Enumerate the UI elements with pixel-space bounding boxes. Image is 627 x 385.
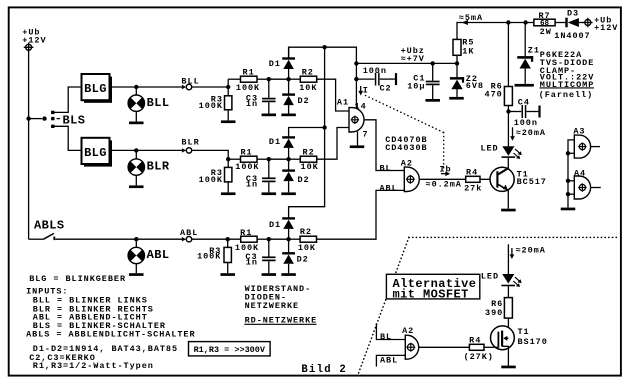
wire +12V rail down left side xyxy=(28,50,30,239)
svg-text:R2: R2 xyxy=(303,147,315,157)
boxed note R1,R3 voltage rating xyxy=(189,342,271,356)
svg-text:BLR: BLR xyxy=(181,137,199,147)
diode D2 (row3) xyxy=(288,239,290,252)
capacitor C4 100n xyxy=(509,111,522,113)
svg-text:C4: C4 xyxy=(518,97,530,107)
ground (C3 row2) xyxy=(262,192,277,195)
wire T1 collector to LED xyxy=(507,158,509,169)
svg-text:R1: R1 xyxy=(240,228,252,238)
svg-text:LED: LED xyxy=(481,271,499,281)
node diodes row3 xyxy=(286,237,290,241)
node C3 row2 xyxy=(267,157,271,161)
resistor R1 100K (row3) xyxy=(241,236,257,242)
svg-text:100n: 100n xyxy=(514,118,538,128)
node A3 lower input xyxy=(566,151,570,155)
capacitor C2 100n decoupling xyxy=(356,78,374,80)
ground (lamp BLL) xyxy=(129,122,144,125)
wire gate to R4 (mosfet) xyxy=(484,346,498,348)
svg-text:BL: BL xyxy=(380,163,392,173)
capacitor C1 10u xyxy=(432,63,434,80)
wire A1 output to A2 BL input xyxy=(365,120,405,171)
node R3 row2 xyxy=(226,157,230,161)
node R3 row1 xyxy=(226,85,230,89)
resistor R3 100K (row2) xyxy=(227,159,229,167)
ground (C3 row3) xyxy=(262,273,277,276)
svg-text:D1: D1 xyxy=(269,59,281,69)
svg-text:LED: LED xyxy=(480,143,498,153)
svg-text:7: 7 xyxy=(363,130,369,140)
ground (D2 row1) xyxy=(281,114,296,117)
wire BLS upper contact to BLG1 xyxy=(55,87,82,112)
wire BLG1 output to lamp BLL node xyxy=(112,86,136,88)
svg-text:R2: R2 xyxy=(302,67,314,77)
supply terminal +Ub +12V (top right) xyxy=(585,20,591,26)
diode D1 (row3) xyxy=(289,128,325,218)
svg-text:≈+7V: ≈+7V xyxy=(401,54,425,64)
wire BLL terminal to R3 node xyxy=(192,79,229,87)
svg-text:D2: D2 xyxy=(297,255,309,265)
ground (R3 row2) xyxy=(221,192,236,195)
node R6 top xyxy=(506,20,510,24)
svg-text:+12V: +12V xyxy=(22,36,46,46)
node Z1 tap xyxy=(523,20,527,24)
node BLR lamp junction xyxy=(134,148,138,152)
svg-text:≈0.2mA: ≈0.2mA xyxy=(426,179,462,189)
node C3 row3 xyxy=(267,237,271,241)
node C2 tap xyxy=(354,77,358,81)
TVS diode Z1 P6KE22A xyxy=(524,23,526,57)
node BLL lamp junction xyxy=(134,85,138,89)
LED indicator (main) xyxy=(502,146,514,156)
svg-text:BL: BL xyxy=(380,332,392,342)
svg-text:100n: 100n xyxy=(363,66,387,76)
ground (C3 row1) xyxy=(262,114,277,117)
ground (C2, vertical bar) xyxy=(395,73,397,85)
svg-text:D1: D1 xyxy=(269,137,281,147)
resistor R7 68 2W xyxy=(534,19,555,26)
wire BL input stub (mosfet) xyxy=(376,323,405,339)
svg-text:I: I xyxy=(363,85,369,95)
current I arrow into A1 pin 14 xyxy=(360,86,362,92)
ground (D2 row3) xyxy=(281,273,296,276)
node diodes row1 xyxy=(286,77,290,81)
svg-text:BLG = BLINKGEBER: BLG = BLINKGEBER xyxy=(29,274,126,284)
ground (Z1) xyxy=(515,84,534,87)
svg-text:100K: 100K xyxy=(199,101,223,111)
resistor R4 27k xyxy=(466,176,480,182)
node R5/Z2 on +Ubz rail xyxy=(455,61,459,65)
wire D1 clamp bus vertical xyxy=(322,125,326,129)
resistor R6 470 xyxy=(507,23,509,87)
wire R2 row2 to A1 lower input xyxy=(317,128,349,160)
svg-text:CD4030B: CD4030B xyxy=(385,143,427,153)
svg-text:100K: 100K xyxy=(236,83,260,93)
wire R6 to T1 drain (mosfet) xyxy=(502,318,508,331)
node A1 supply xyxy=(354,61,358,65)
switch BLS (2-pole blinker switch) xyxy=(29,118,42,120)
wire A3 output xyxy=(590,146,600,148)
svg-text:10K: 10K xyxy=(299,83,317,93)
wire ABL terminal to R3 node xyxy=(192,238,241,240)
ground (lamp ABL) xyxy=(129,273,144,276)
svg-text:R1: R1 xyxy=(243,67,255,77)
transistor T1 BC517 (npn darlington) xyxy=(490,167,514,191)
diode D1 (row1) xyxy=(288,47,290,57)
svg-text:ABL: ABL xyxy=(147,248,170,262)
wire R4 to T1 base xyxy=(480,178,497,180)
wire spare-gate input bus to ground xyxy=(568,140,574,208)
svg-text:6V8: 6V8 xyxy=(466,81,484,91)
wire row2 net to diodes xyxy=(269,158,289,160)
svg-text:D3: D3 xyxy=(567,8,579,18)
svg-text:R4: R4 xyxy=(466,168,478,178)
wire ABL input stub (mosfet) xyxy=(376,355,405,366)
svg-text:ABLS = ABBLENDLICHT-SCHALTER: ABLS = ABBLENDLICHT-SCHALTER xyxy=(26,330,195,340)
capacitor C3 1n (row2) xyxy=(268,159,270,177)
wire LED feed (mosfet) xyxy=(507,244,509,274)
wire T1 emitter to ground xyxy=(507,190,509,209)
svg-text:C2: C2 xyxy=(380,83,392,93)
svg-text:R1: R1 xyxy=(240,147,252,157)
resistor R4 (27K) (mosfet) xyxy=(469,344,484,350)
svg-text:MULTICOMP: MULTICOMP xyxy=(540,80,594,90)
ground (T1 source, mosfet) xyxy=(501,366,516,369)
svg-text:10K: 10K xyxy=(301,162,319,172)
lamp BLR xyxy=(135,150,137,159)
resistor R1 100K (row1) xyxy=(228,78,240,80)
svg-text:1n: 1n xyxy=(246,179,258,189)
svg-text:1n: 1n xyxy=(246,99,258,109)
capacitor C3 1n (row3) xyxy=(268,239,270,256)
svg-text:27k: 27k xyxy=(464,183,482,193)
resistor R3 100K (row3) xyxy=(227,239,229,247)
svg-text:BLG: BLG xyxy=(84,82,107,96)
node C3 row1 xyxy=(267,77,271,81)
svg-text:A2: A2 xyxy=(402,326,414,336)
wire A2 output to R4 xyxy=(419,178,465,180)
ground (D2 row2) xyxy=(281,192,296,195)
blinker generator box BLG1 xyxy=(84,77,112,103)
svg-text:ABL: ABL xyxy=(380,183,398,193)
svg-text:≈20mA: ≈20mA xyxy=(516,245,546,255)
ground (R3 row3) xyxy=(220,273,235,276)
svg-text:BC517: BC517 xyxy=(517,177,547,187)
wire R2 row3 to A2 ABL input xyxy=(317,190,405,239)
svg-text:NETZWERKE: NETZWERKE xyxy=(245,301,299,311)
wire A4 output xyxy=(590,187,601,189)
svg-text:R1,R3=1/2-Watt-Typen: R1,R3=1/2-Watt-Typen xyxy=(33,361,154,371)
svg-text:A1: A1 xyxy=(337,98,349,108)
svg-text:BLS: BLS xyxy=(63,114,86,128)
svg-text:R4: R4 xyxy=(469,335,481,345)
lamp ABL xyxy=(135,239,137,248)
wire BLG2 output to lamp BLR node xyxy=(112,149,136,151)
wire R2 row1 to A1 upper input xyxy=(317,79,349,111)
wire clamp rail to +Ubz xyxy=(289,47,357,63)
wire LED anode up to C4 node xyxy=(507,113,509,146)
svg-text:100K: 100K xyxy=(235,162,259,172)
svg-text:390: 390 xyxy=(485,308,503,318)
wire A2 output to R4 (mosfet) xyxy=(419,346,470,348)
svg-text:(Farnell): (Farnell) xyxy=(539,90,593,100)
wire ABLS to lamp ABL node xyxy=(55,238,182,240)
wire row1 net to diodes xyxy=(269,78,289,80)
wire ~5mA supply feed xyxy=(457,23,534,64)
blinker generator box BLG2 xyxy=(84,140,112,166)
label ~20mA (mosfet) with arrow xyxy=(511,248,513,256)
svg-text:BLG: BLG xyxy=(84,146,107,160)
wire lamp node to BLL terminal xyxy=(136,86,182,88)
node C1 xyxy=(431,61,435,65)
label ~20mA with arrow xyxy=(512,127,514,137)
svg-text:T1: T1 xyxy=(518,327,530,337)
dotted separator of MOSFET alternative xyxy=(409,236,619,238)
wire lamp node to BLR terminal xyxy=(136,149,182,151)
diode D3 1N4007 (reverse protection) xyxy=(555,22,565,24)
resistor R6 390 (mosfet) xyxy=(504,298,512,319)
resistor R2 10K (row3) xyxy=(289,238,301,240)
junction rail/BLS xyxy=(26,116,30,120)
ground (T1 emitter) xyxy=(501,209,516,212)
svg-text:470: 470 xyxy=(485,89,503,99)
svg-text:ABLS: ABLS xyxy=(34,218,65,232)
ground (spare gate inputs) xyxy=(561,208,576,211)
svg-text:ABL: ABL xyxy=(380,356,398,366)
resistor R1 100K (row2) xyxy=(228,158,240,160)
lamp BLL xyxy=(135,87,137,96)
wire BLR terminal to R3 node xyxy=(192,150,229,159)
svg-text:≈5mA: ≈5mA xyxy=(459,13,483,23)
svg-text:10K: 10K xyxy=(298,243,316,253)
svg-text:≈20mA: ≈20mA xyxy=(516,128,546,138)
svg-text:Bild 2: Bild 2 xyxy=(301,364,347,376)
svg-text:R1,R3 = >>300V: R1,R3 = >>300V xyxy=(194,345,266,355)
ground (C4, vertical bar) xyxy=(538,106,540,118)
resistor R3 100K (row1) xyxy=(227,87,229,96)
svg-text:D2: D2 xyxy=(298,96,310,106)
svg-text:1n: 1n xyxy=(246,257,258,267)
node ABL lamp junction xyxy=(134,237,138,241)
capacitor C3 1n (row1) xyxy=(268,79,270,98)
svg-text:BS170: BS170 xyxy=(518,337,548,347)
wire row3 net to diodes xyxy=(269,238,289,240)
ground (R3 row1) xyxy=(221,120,236,123)
svg-text:2W: 2W xyxy=(540,27,552,37)
svg-text:D1: D1 xyxy=(269,220,281,230)
svg-text:R2: R2 xyxy=(300,227,312,237)
wire LED to R6 (mosfet) xyxy=(507,286,509,297)
node C4 xyxy=(506,109,510,113)
wire BLS lower contact to BLG2 xyxy=(55,126,82,150)
diode D1 (row2) xyxy=(289,128,325,137)
boxed label Alternative mit MOSFET xyxy=(386,274,479,299)
svg-text:BLL: BLL xyxy=(147,96,170,110)
resistor R2 10K (row1) xyxy=(289,78,301,80)
svg-text:BLR: BLR xyxy=(147,160,170,174)
svg-text:10µ: 10µ xyxy=(407,81,425,91)
svg-text:Z1: Z1 xyxy=(528,45,540,55)
dotted current path I to Ib xyxy=(366,96,444,133)
node R3 row3 xyxy=(226,237,230,241)
svg-text:1N4007: 1N4007 xyxy=(554,31,590,41)
wire +Ubz rail xyxy=(356,62,457,64)
wire A1 supply pin 14 xyxy=(355,63,357,109)
node A4 upper input xyxy=(566,179,570,183)
svg-text:mit MOSFET: mit MOSFET xyxy=(393,288,469,302)
transistor T1 BS170 (n-mosfet) xyxy=(491,326,515,350)
diode D2 (row1) xyxy=(288,79,290,93)
diode D2 (row2) xyxy=(288,159,290,169)
zener diode Z2 6V8 xyxy=(456,63,458,77)
LED indicator (mosfet) xyxy=(502,274,514,284)
svg-text:(27K): (27K) xyxy=(464,352,494,362)
node diodes row2 xyxy=(286,157,290,161)
svg-text:+12V: +12V xyxy=(594,23,618,33)
pin 7 ground of A1 xyxy=(357,132,359,146)
resistor R2 10K (row2) xyxy=(289,158,301,160)
resistor R5 1K xyxy=(453,39,461,55)
svg-text:1K: 1K xyxy=(462,46,474,56)
node A4 lower input xyxy=(566,192,570,196)
ground (lamp BLR) xyxy=(129,185,144,188)
arrowhead ~5mA (points left) xyxy=(462,20,469,25)
node clamp bus / rail xyxy=(322,45,326,49)
ground (Z2) xyxy=(449,97,464,100)
ground (C1) xyxy=(425,99,440,102)
svg-text:D2: D2 xyxy=(298,175,310,185)
svg-text:100K: 100K xyxy=(199,175,223,185)
svg-text:100K: 100K xyxy=(197,252,221,262)
